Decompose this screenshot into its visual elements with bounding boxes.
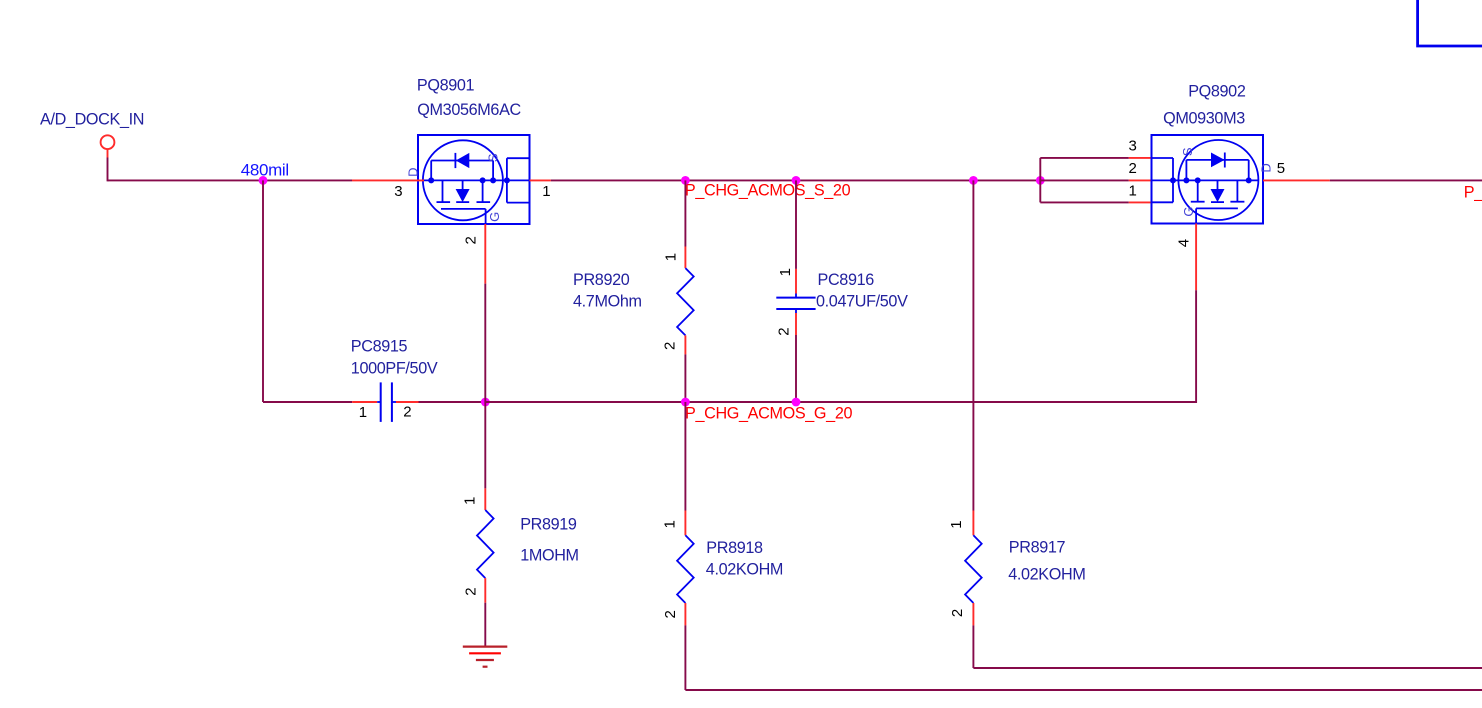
junction at 480mil tap <box>259 176 268 185</box>
resistor PR8920 body <box>677 268 694 335</box>
wire G junction down to PR8918 <box>684 402 686 511</box>
pin stub below port <box>107 149 109 157</box>
PQ8901 pin name D <box>405 168 420 177</box>
svg-text:3: 3 <box>394 183 402 200</box>
junction rail / PQ8902 bracket <box>1036 176 1045 185</box>
svg-text:2: 2 <box>776 328 793 336</box>
svg-text:PC8915: PC8915 <box>351 337 408 355</box>
resistor PR8917 pin2 stub <box>972 603 974 625</box>
transistor PQ8902 body (box, circle, rail) <box>1152 135 1264 224</box>
svg-text:G: G <box>487 212 502 222</box>
capacitor PC8916 pin 2 number <box>776 328 793 336</box>
PQ8901 pin name G <box>487 212 502 222</box>
svg-text:2: 2 <box>463 237 480 245</box>
wire PC8916 pin2 down to G rail <box>795 335 797 402</box>
wire PR8917 pin2 down and right <box>973 625 1482 668</box>
svg-text:PR8920: PR8920 <box>573 271 630 289</box>
svg-text:P_CHG: P_CHG <box>1464 184 1482 202</box>
svg-text:G: G <box>1181 207 1196 217</box>
resistor PR8918 value label <box>706 561 783 579</box>
svg-text:1: 1 <box>462 497 479 505</box>
node P_ net label (clipped at edge) <box>1464 184 1482 202</box>
capacitor PC8915 pin 1 number <box>359 404 367 421</box>
resistor PR8917 body <box>965 535 982 603</box>
svg-text:1: 1 <box>662 521 679 529</box>
svg-text:D: D <box>405 168 420 177</box>
resistor PR8918 body <box>677 535 694 603</box>
resistor PR8919 pin2 stub <box>484 578 486 603</box>
resistor PR8919 value label <box>520 547 579 565</box>
junction G rail / PR8918 <box>681 398 690 407</box>
resistor PR8917 refdes label <box>1009 539 1066 557</box>
svg-text:D: D <box>1259 164 1274 173</box>
transistor PQ8901 value label QM3056M6AC <box>417 101 521 119</box>
PQ8901 pin name S <box>485 153 500 162</box>
svg-text:QM3056M6AC: QM3056M6AC <box>417 101 521 119</box>
PQ8902 internal junction dots <box>1170 177 1252 183</box>
PQ8902 pin 5 number <box>1277 160 1285 177</box>
svg-text:2: 2 <box>463 588 480 596</box>
wire rail from port to Q1 pin3 <box>108 179 353 181</box>
capacitor PC8915 pin 2 number <box>403 404 411 421</box>
PQ8901 body-diode left riser <box>430 161 432 181</box>
resistor PR8920 pin2 stub <box>684 335 686 354</box>
PQ8901 source tie bracket <box>507 158 530 202</box>
svg-text:1: 1 <box>777 268 794 276</box>
PQ8902 pin 2 number <box>1129 160 1137 177</box>
svg-text:1: 1 <box>948 521 965 529</box>
wire down from 480mil junction to PC8915 <box>262 180 264 402</box>
PQ8902 body-diode top rail <box>1186 159 1248 161</box>
svg-text:PR8919: PR8919 <box>520 516 577 534</box>
wire rail down to PC8916 pin1 <box>795 180 797 269</box>
svg-text:1000PF/50V: 1000PF/50V <box>351 360 438 378</box>
svg-text:2: 2 <box>1129 160 1137 177</box>
PQ8901 pin 3 stub <box>352 179 424 181</box>
transistor PQ8902 value label QM0930M3 <box>1163 109 1245 127</box>
capacitor PC8915 pin1 stub <box>352 401 381 403</box>
wire rail Q1 pin1 to Q2 bracket <box>551 179 1040 181</box>
svg-text:2: 2 <box>662 342 679 350</box>
svg-text:PQ8901: PQ8901 <box>417 76 475 94</box>
PQ8902 source leg <box>1191 180 1205 201</box>
PQ8902 source tie bracket inside <box>1152 158 1174 202</box>
svg-text:PQ8902: PQ8902 <box>1188 83 1246 101</box>
resistor PR8919 pin 1 number <box>462 497 479 505</box>
svg-text:1MOHM: 1MOHM <box>520 547 579 565</box>
resistor PR8918 refdes label <box>706 539 763 557</box>
svg-text:5: 5 <box>1277 160 1285 177</box>
PQ8901 pin 2 stub <box>484 224 486 284</box>
wire length label 480mil <box>241 160 289 179</box>
resistor PR8917 pin 1 number <box>948 521 965 529</box>
PQ8901 pin 2 number <box>463 237 480 245</box>
svg-text:PR8917: PR8917 <box>1009 539 1066 557</box>
wire Q2 pin5 to right edge <box>1330 179 1482 181</box>
wire PQ8902 gate down to G rail <box>1195 290 1197 403</box>
svg-text:1: 1 <box>359 404 367 421</box>
PQ8902 pin 3 stub <box>1129 157 1152 159</box>
resistor PR8920 pin 2 number <box>662 342 679 350</box>
junction rail / PC8916 <box>792 176 801 185</box>
resistor PR8920 pin1 stub <box>684 247 686 269</box>
capacitor PC8915 plates <box>381 382 392 422</box>
wire rail down to PR8917 (crosses G rail) <box>972 180 974 510</box>
resistor PR8917 value label <box>1008 566 1085 584</box>
resistor PR8917 pin1 stub <box>972 511 974 536</box>
resistor PR8920 value label <box>573 293 642 311</box>
PQ8902 input tie bracket wires <box>1040 158 1129 203</box>
svg-text:3: 3 <box>1129 138 1137 155</box>
svg-text:PC8916: PC8916 <box>818 271 875 289</box>
junction rail / PR8917 <box>969 176 978 185</box>
off-sheet component box corner (top right) <box>1418 0 1482 46</box>
svg-text:4.02KOHM: 4.02KOHM <box>1008 566 1085 584</box>
resistor PR8920 pin 1 number <box>663 253 680 261</box>
PQ8902 pin 3 number <box>1129 138 1137 155</box>
svg-text:S: S <box>485 153 500 162</box>
PQ8901 substrate arrow <box>456 180 470 202</box>
svg-text:A/D_DOCK_IN: A/D_DOCK_IN <box>40 111 144 129</box>
junction G rail / PC8916 <box>792 398 801 407</box>
PQ8902 pin name G <box>1181 207 1196 217</box>
resistor PR8918 pin 1 number <box>662 521 679 529</box>
PQ8901 drain leg <box>437 180 451 202</box>
PQ8902 pin 1 number <box>1129 182 1137 199</box>
resistor PR8919 body <box>477 510 494 578</box>
PQ8902 pin 4 number <box>1176 239 1193 247</box>
node P_CHG_ACMOS_G_20 net label <box>685 404 852 422</box>
wire G junction down to PR8919 <box>484 402 486 488</box>
PQ8901 body-diode right riser <box>492 161 494 181</box>
resistor PR8919 refdes label <box>520 516 577 534</box>
transistor PQ8902 refdes label <box>1188 83 1246 101</box>
capacitor PC8915 refdes label <box>351 337 408 355</box>
PQ8902 gate lead inside box <box>1195 208 1197 223</box>
wire Q1 gate down to G rail <box>484 284 486 402</box>
junction G rail / Q1 gate / PR8919 <box>481 398 490 407</box>
svg-text:1: 1 <box>663 253 680 261</box>
wire PC8915 left from 480mil tap <box>263 401 352 403</box>
capacitor PC8916 pin1 stub <box>795 269 797 298</box>
node A/D_DOCK_IN label <box>40 111 144 129</box>
PQ8901 body-diode triangle <box>456 153 470 168</box>
PQ8902 body-diode cathode bar <box>1224 153 1226 168</box>
capacitor PC8915 value label <box>351 360 438 378</box>
PQ8901 gate lead inside box <box>485 209 487 224</box>
svg-text:2: 2 <box>662 611 679 619</box>
capacitor PC8916 pin 1 number <box>777 268 794 276</box>
PQ8902 body-diode left riser <box>1185 160 1187 181</box>
resistor PR8918 pin 2 number <box>662 611 679 619</box>
capacitor PC8916 pin2 stub <box>795 309 797 335</box>
PQ8902 gate plate <box>1196 207 1238 209</box>
svg-text:0.047UF/50V: 0.047UF/50V <box>816 293 908 311</box>
PQ8901 pin 1 stub <box>530 179 551 181</box>
PQ8901 gate plate <box>441 208 486 210</box>
PQ8901 pin 1 number <box>542 183 550 200</box>
svg-text:QM0930M3: QM0930M3 <box>1163 109 1245 127</box>
svg-text:PR8918: PR8918 <box>706 539 763 557</box>
PQ8901 pin 3 number <box>394 183 402 200</box>
wire PC8915 pin2 to G junction <box>419 401 486 403</box>
wire PR8919 pin2 to ground <box>484 603 486 647</box>
wire PR8918 pin2 down and right <box>685 625 1482 690</box>
capacitor PC8916 plates <box>776 298 815 309</box>
PQ8902 pin 1 stub <box>1129 201 1152 203</box>
PQ8901 body-diode top rail <box>431 160 493 162</box>
PQ8902 pin name S <box>1180 147 1195 156</box>
PQ8901 internal junction dots <box>428 177 510 183</box>
svg-text:P_CHG_ACMOS_S_20: P_CHG_ACMOS_S_20 <box>685 182 851 200</box>
resistor PR8917 pin 2 number <box>949 609 966 617</box>
resistor PR8919 pin1 stub <box>484 488 486 510</box>
PQ8902 drain leg <box>1230 180 1244 201</box>
capacitor PC8915 pin2 stub <box>392 401 419 403</box>
svg-text:S: S <box>1180 147 1195 156</box>
junction rail / PR8920 <box>681 176 690 185</box>
ground symbol <box>463 647 508 667</box>
svg-text:1: 1 <box>1129 182 1137 199</box>
transistor PQ8901 refdes label <box>417 76 475 94</box>
svg-text:4: 4 <box>1176 239 1193 247</box>
resistor PR8920 refdes label <box>573 271 630 289</box>
transistor PQ8901 body (box, circle, source rail) <box>418 135 530 224</box>
PQ8902 pin 5 stub <box>1263 179 1330 181</box>
wire PR8920 pin2 down to G rail <box>684 354 686 402</box>
svg-text:P_CHG_ACMOS_G_20: P_CHG_ACMOS_G_20 <box>685 404 852 422</box>
resistor PR8918 pin2 stub <box>684 603 686 625</box>
resistor PR8919 pin 2 number <box>463 588 480 596</box>
port terminal circle A/D_DOCK_IN <box>101 135 115 149</box>
PQ8902 pin name D <box>1259 164 1274 173</box>
PQ8902 body-diode right riser <box>1248 160 1250 181</box>
svg-text:4.7MOhm: 4.7MOhm <box>573 293 642 311</box>
wire rail down to PR8920 pin1 <box>684 180 686 246</box>
svg-text:2: 2 <box>403 404 411 421</box>
node P_CHG_ACMOS_S_20 net label <box>685 182 851 200</box>
PQ8902 pin 4 stub <box>1195 224 1197 291</box>
capacitor PC8916 refdes label <box>818 271 875 289</box>
wire G rail <box>485 401 1196 403</box>
wire port down to rail <box>107 158 109 182</box>
PQ8902 substrate arrow <box>1211 180 1225 202</box>
svg-text:2: 2 <box>949 609 966 617</box>
resistor PR8918 pin1 stub <box>684 511 686 536</box>
PQ8902 body-diode triangle <box>1211 153 1225 168</box>
PQ8901 body-diode cathode bar <box>454 153 456 168</box>
PQ8902 pin 2 stub <box>1129 179 1152 181</box>
svg-text:1: 1 <box>542 183 550 200</box>
PQ8901 source leg <box>477 180 491 202</box>
svg-text:4.02KOHM: 4.02KOHM <box>706 561 783 579</box>
capacitor PC8916 value label <box>816 293 908 311</box>
